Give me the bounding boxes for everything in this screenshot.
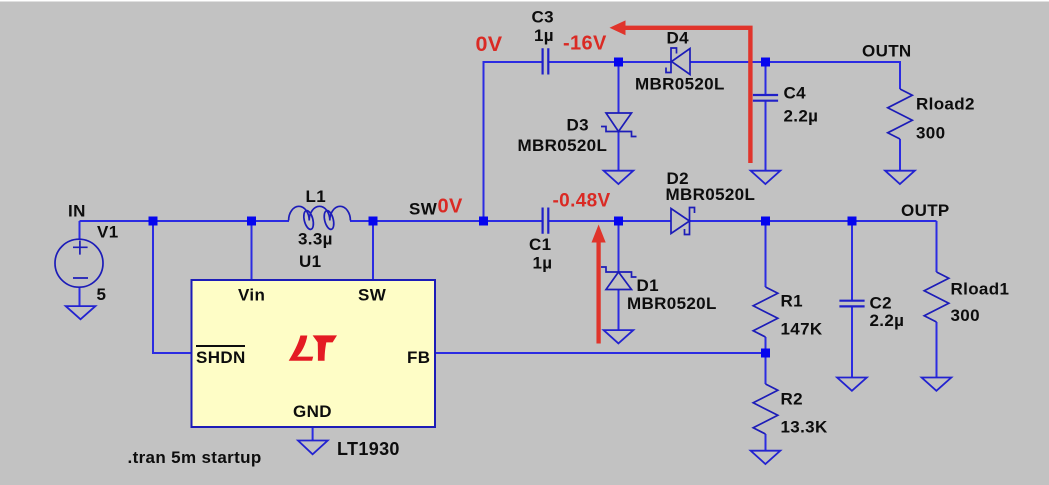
node label OUTP (901, 201, 950, 220)
node junction SW-C3 (479, 217, 488, 226)
value 5 (97, 285, 107, 304)
svg-text:U1: U1 (299, 252, 321, 271)
diode D2 (671, 208, 695, 235)
svg-text:3.3µ: 3.3µ (298, 230, 333, 249)
value 2.2u C2 (870, 311, 905, 330)
capacitor C1 (543, 208, 549, 234)
pin SHDN (196, 346, 246, 367)
ground V1 (66, 306, 96, 319)
capacitor C4 (753, 95, 778, 101)
wire GND pin stub (312, 427, 314, 441)
ground Rload1 (922, 378, 952, 391)
svg-text:2.2µ: 2.2µ (870, 311, 905, 330)
LT logo (289, 335, 337, 360)
diode D1 (601, 267, 637, 290)
node junction Vin (247, 217, 256, 226)
svg-text:LT1930: LT1930 (337, 439, 400, 459)
voltage source V1 (55, 239, 103, 287)
ground Rload2 (885, 171, 915, 184)
wire V1 stem (79, 221, 81, 306)
label Rload2 (916, 95, 975, 114)
diode D3 (601, 113, 637, 137)
label D4 (667, 29, 690, 48)
label R2 (781, 390, 803, 409)
svg-text:MBR0520L: MBR0520L (666, 185, 756, 204)
node junction D2-R1 (761, 217, 770, 226)
svg-text:0V: 0V (438, 196, 463, 218)
value 300 Rload2 (916, 124, 945, 143)
node junction SW pin (369, 217, 378, 226)
svg-text:SHDN: SHDN (196, 348, 246, 367)
label C4 (784, 84, 807, 103)
label Rload1 (951, 280, 1010, 299)
label D2 (667, 169, 689, 188)
resistor Rload2 (888, 89, 913, 139)
svg-text:R2: R2 (781, 390, 803, 409)
capacitor C2 (839, 301, 864, 307)
value MBR0520L D2 (666, 185, 756, 204)
node junction FB-R1-R2 (761, 349, 770, 358)
ground D3 (604, 171, 634, 184)
svg-text:SW: SW (358, 286, 387, 305)
svg-text:OUTN: OUTN (862, 42, 912, 61)
label L1 (306, 187, 327, 206)
wire middle rail (80, 220, 937, 222)
capacitor C3 (543, 48, 549, 74)
node label IN (68, 202, 86, 221)
svg-text:-16V: -16V (563, 33, 607, 55)
node junction D4-C4 (761, 58, 770, 67)
label C2 (870, 294, 892, 313)
svg-text:MBR0520L: MBR0520L (635, 75, 725, 94)
svg-text:C4: C4 (784, 84, 807, 103)
IC U1 LT1930 (192, 280, 436, 427)
svg-text:MBR0520L: MBR0520L (627, 294, 717, 313)
svg-text:300: 300 (951, 306, 980, 325)
svg-text:IN: IN (68, 202, 86, 221)
svg-text:FB: FB (407, 348, 430, 367)
svg-text:2.2µ: 2.2µ (784, 107, 819, 126)
label R1 (781, 292, 803, 311)
svg-text:C2: C2 (870, 294, 892, 313)
value 147K (781, 320, 823, 339)
label C3 (532, 8, 554, 27)
current arrow D1 (592, 225, 606, 344)
label LT1930 (337, 439, 400, 459)
svg-text:13.3K: 13.3K (781, 418, 828, 437)
svg-text:147K: 147K (781, 320, 823, 339)
value 3.3u (298, 230, 333, 249)
value 1u C1 (533, 254, 553, 273)
voltage -0.48V (553, 191, 611, 212)
svg-text:D1: D1 (637, 276, 659, 295)
svg-text:1µ: 1µ (533, 254, 553, 273)
ground C4 (751, 171, 781, 184)
svg-text:.tran 5m startup: .tran 5m startup (128, 448, 262, 467)
label D3 (567, 116, 589, 135)
node junction D1 (614, 217, 623, 226)
value 300 Rload1 (951, 306, 980, 325)
resistor Rload1 (924, 272, 949, 322)
svg-text:-0.48V: -0.48V (553, 191, 611, 212)
pin FB (407, 348, 430, 367)
ground D1 (604, 330, 634, 343)
current arrow top (610, 20, 751, 163)
node label SW (409, 200, 438, 219)
svg-text:MBR0520L: MBR0520L (518, 136, 608, 155)
value 13.3K (781, 418, 828, 437)
svg-text:L1: L1 (306, 187, 327, 206)
voltage 0V top left (476, 32, 503, 56)
label D1 (637, 276, 659, 295)
wire top rail (484, 62, 901, 221)
node junction C2 (848, 217, 857, 226)
wire Rload1 branch (936, 221, 938, 378)
wire FB net (435, 352, 766, 354)
pin Vin (238, 286, 265, 305)
directive .tran (128, 448, 262, 467)
inductor L1 (289, 206, 351, 230)
label U1 (299, 252, 321, 271)
node label OUTN (862, 42, 912, 61)
svg-text:D3: D3 (567, 116, 589, 135)
wire SW branch (372, 221, 374, 280)
svg-text:V1: V1 (97, 223, 119, 242)
ground R2 (751, 451, 781, 464)
value MBR0520L D3 (518, 136, 608, 155)
label C1 (529, 235, 551, 254)
value 1u C3 (534, 26, 554, 45)
value MBR0520L D1 (627, 294, 717, 313)
svg-text:C3: C3 (532, 8, 554, 27)
wire D3 branch (618, 62, 620, 171)
resistor R1 (753, 287, 778, 337)
wire C4 branch (765, 62, 767, 171)
node junction IN-SHDN (149, 217, 158, 226)
svg-text:Rload1: Rload1 (951, 280, 1010, 299)
wire SHDN branch (153, 221, 192, 353)
svg-text:GND: GND (293, 402, 332, 421)
svg-text:SW: SW (409, 200, 438, 219)
svg-text:Rload2: Rload2 (916, 95, 975, 114)
wire Vin branch (251, 221, 253, 280)
svg-text:D4: D4 (667, 29, 690, 48)
node junction C3-D3 (614, 58, 623, 67)
svg-text:Vin: Vin (238, 286, 265, 305)
svg-text:300: 300 (916, 124, 945, 143)
svg-text:0V: 0V (476, 32, 503, 56)
ground U1 (298, 441, 328, 455)
diode D4 (666, 48, 690, 75)
svg-text:R1: R1 (781, 292, 803, 311)
value MBR0520L D4 (635, 75, 725, 94)
wire R1 R2 branch (765, 221, 767, 451)
svg-text:OUTP: OUTP (901, 201, 950, 220)
ground C2 (837, 378, 867, 391)
label V1 (97, 223, 119, 242)
voltage -16V (563, 33, 607, 55)
pin GND (293, 402, 332, 421)
voltage 0V at SW (438, 196, 463, 218)
wire D1 branch (618, 221, 620, 331)
svg-text:1µ: 1µ (534, 26, 554, 45)
svg-text:C1: C1 (529, 235, 551, 254)
resistor R2 (753, 384, 778, 434)
svg-text:5: 5 (97, 285, 107, 304)
wire C2 branch (851, 221, 853, 378)
value 2.2u C4 (784, 107, 819, 126)
pin SW (358, 286, 387, 305)
